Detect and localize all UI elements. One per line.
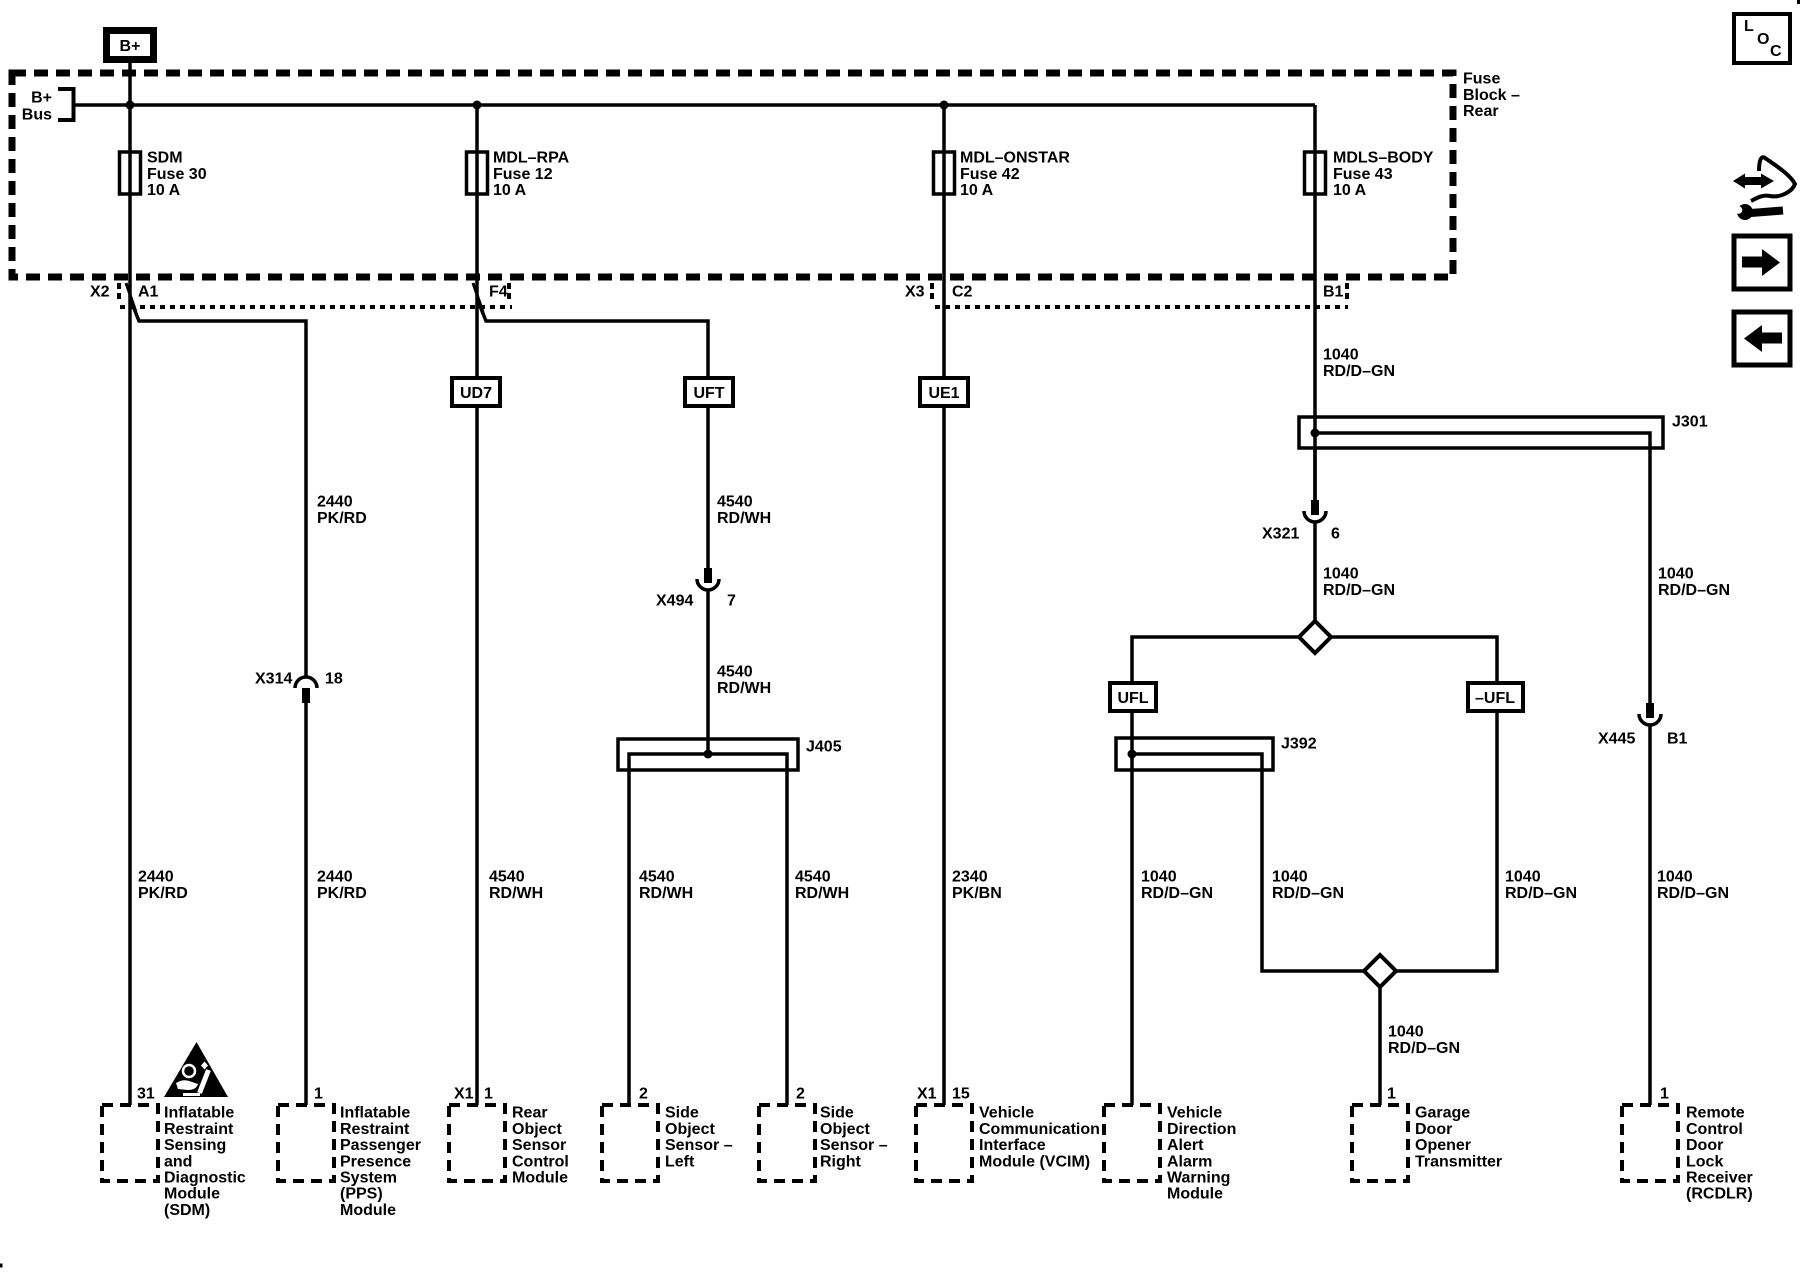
svg-text:15: 15 — [952, 1086, 970, 1103]
svg-text:Bus: Bus — [22, 107, 52, 124]
wire diamond to garage module — [1378, 987, 1382, 1105]
navigation scribble icon — [1733, 157, 1795, 220]
wire J301 to X321 — [1313, 448, 1317, 500]
fuse MDL-RPA Fuse 12 — [467, 152, 488, 194]
svg-text:1: 1 — [484, 1086, 493, 1103]
svg-text:RearObjectSensorControlModule: RearObjectSensorControlModule — [512, 1105, 569, 1187]
svg-text:MDL–RPAFuse 1210 A: MDL–RPAFuse 1210 A — [493, 150, 570, 199]
svg-text:SideObjectSensor –Right: SideObjectSensor –Right — [820, 1105, 888, 1171]
wire -UFL to diamond lower — [1396, 711, 1497, 971]
page corner mark top right — [1797, 0, 1800, 4]
svg-text:X1: X1 — [454, 1086, 474, 1103]
svg-text:GarageDoorOpenerTransmitter: GarageDoorOpenerTransmitter — [1415, 1105, 1502, 1171]
svg-text:UE1: UE1 — [928, 385, 959, 402]
connector row dotted line right — [935, 305, 1348, 309]
module rear object sensor box — [449, 1105, 505, 1181]
wire diamond right to -UFL — [1331, 637, 1497, 683]
svg-text:1040RD/D–GN: 1040RD/D–GN — [1505, 869, 1577, 902]
svg-text:B1: B1 — [1323, 284, 1344, 301]
svg-text:MDL–ONSTARFuse 4210 A: MDL–ONSTARFuse 4210 A — [960, 150, 1070, 199]
svg-text:SDMFuse 3010 A: SDMFuse 3010 A — [147, 150, 207, 199]
svg-text:1040RD/D–GN: 1040RD/D–GN — [1657, 869, 1729, 902]
svg-text:1: 1 — [1387, 1086, 1396, 1103]
svg-text:2440PK/RD: 2440PK/RD — [138, 869, 188, 902]
page corner mark bottom left — [0, 1264, 3, 1268]
svg-text:1: 1 — [314, 1086, 323, 1103]
wire X321 to diamond — [1313, 522, 1317, 621]
wire B+ bus horizontal — [74, 103, 1316, 107]
svg-text:X1: X1 — [917, 1086, 937, 1103]
svg-text:4540RD/WH: 4540RD/WH — [489, 869, 543, 902]
connector box UE1 — [920, 378, 968, 406]
svg-text:J301: J301 — [1672, 414, 1708, 431]
svg-text:31: 31 — [137, 1086, 155, 1103]
connector tick X3 — [930, 283, 934, 303]
svg-text:C: C — [1770, 43, 1782, 60]
inline connector X494 — [697, 568, 719, 590]
navigation arrow right box — [1734, 236, 1790, 289]
svg-text:B1: B1 — [1667, 731, 1688, 748]
wire B+ vertical to SDM — [128, 63, 132, 1105]
splice pack J405 — [618, 739, 798, 1105]
svg-text:RemoteControlDoorLockReceiver(: RemoteControlDoorLockReceiver(RCDLR) — [1686, 1105, 1753, 1203]
node bus/RPA junction — [473, 101, 482, 110]
connector tick B1 — [1345, 283, 1349, 303]
wire MDL-RPA vertical — [475, 105, 479, 1105]
svg-text:UFL: UFL — [1117, 690, 1148, 707]
svg-text:4540RD/WH: 4540RD/WH — [717, 494, 771, 527]
module RCDLR box — [1622, 1105, 1678, 1181]
svg-text:2: 2 — [796, 1086, 805, 1103]
splice diamond upper — [1299, 621, 1331, 653]
connector box UFL — [1110, 683, 1156, 711]
svg-text:O: O — [1757, 31, 1769, 48]
connector box UFT — [685, 378, 733, 406]
svg-text:InflatableRestraintSensingandD: InflatableRestraintSensingandDiagnosticM… — [164, 1105, 246, 1219]
fuse MDL-ONSTAR Fuse 42 — [934, 152, 955, 194]
svg-text:UD7: UD7 — [460, 385, 492, 402]
svg-text:X445: X445 — [1598, 731, 1635, 748]
svg-text:18: 18 — [325, 671, 343, 688]
svg-text:X3: X3 — [905, 284, 925, 301]
wire branch F4 to UFT — [478, 301, 708, 378]
svg-text:L: L — [1744, 18, 1754, 35]
module PPS box — [278, 1105, 334, 1181]
wire J392 to diamond lower — [1262, 970, 1364, 971]
svg-text:J392: J392 — [1281, 736, 1317, 753]
connector row dotted line left — [120, 305, 512, 309]
svg-text:FuseBlock –Rear: FuseBlock –Rear — [1463, 71, 1520, 120]
svg-text:1040RD/D–GN: 1040RD/D–GN — [1658, 566, 1730, 599]
svg-text:F4: F4 — [489, 284, 508, 301]
splice pack J301 — [1299, 417, 1663, 703]
svg-text:2340PK/BN: 2340PK/BN — [952, 869, 1002, 902]
navigation arrow left box — [1734, 312, 1790, 365]
inline connector X445 — [1639, 703, 1661, 725]
connector slash A1 — [126, 283, 136, 312]
LOC legend box — [1734, 14, 1790, 63]
svg-text:–UFL: –UFL — [1475, 690, 1515, 707]
fuse SDM Fuse 30 — [120, 152, 141, 194]
module VCIM box — [916, 1105, 972, 1181]
svg-text:1: 1 — [1660, 1086, 1669, 1103]
svg-text:X314: X314 — [255, 671, 292, 688]
svg-text:4540RD/WH: 4540RD/WH — [639, 869, 693, 902]
svg-text:B+: B+ — [120, 38, 141, 55]
inline connector X314 — [295, 677, 317, 703]
module vehicle direction alert box — [1104, 1105, 1160, 1181]
svg-text:J405: J405 — [806, 739, 842, 756]
svg-text:A1: A1 — [138, 284, 159, 301]
fuse MDLS-BODY Fuse 43 — [1305, 152, 1326, 194]
wire UFL to module — [1130, 711, 1134, 1105]
wire diamond left to UFL — [1132, 637, 1299, 683]
svg-text:7: 7 — [727, 593, 736, 610]
B+ bus bracket — [58, 89, 74, 120]
connector slash F4 — [473, 283, 483, 312]
node bus/SDM junction — [126, 101, 135, 110]
module side object sensor left box — [602, 1105, 658, 1181]
svg-text:UFT: UFT — [693, 385, 724, 402]
fuse block - rear dashed box — [12, 73, 1453, 277]
wire X445 to RCDLR — [1648, 725, 1652, 1105]
module SDM box — [102, 1105, 158, 1181]
SRS caution triangle — [164, 1042, 228, 1097]
svg-text:MDLS–BODYFuse 4310 A: MDLS–BODYFuse 4310 A — [1333, 150, 1434, 199]
svg-text:4540RD/WH: 4540RD/WH — [795, 869, 849, 902]
svg-text:1040RD/D–GN: 1040RD/D–GN — [1388, 1024, 1460, 1057]
splice diamond lower — [1364, 955, 1396, 987]
connector box UD7 — [452, 378, 500, 406]
node bus/ONSTAR junction — [940, 101, 949, 110]
svg-text:1040RD/D–GN: 1040RD/D–GN — [1323, 347, 1395, 380]
connector box -UFL — [1468, 683, 1523, 711]
svg-text:SideObjectSensor –Left: SideObjectSensor –Left — [665, 1105, 733, 1171]
wire MDL-ONSTAR vertical — [942, 105, 946, 1105]
svg-text:1040RD/D–GN: 1040RD/D–GN — [1272, 869, 1344, 902]
svg-text:2440PK/RD: 2440PK/RD — [317, 494, 367, 527]
module garage door opener box — [1352, 1105, 1408, 1181]
svg-text:VehicleCommunicationInterfaceM: VehicleCommunicationInterfaceModule (VCI… — [979, 1105, 1100, 1171]
inline connector X321 — [1304, 500, 1326, 522]
svg-text:X321: X321 — [1262, 526, 1299, 543]
svg-text:2: 2 — [639, 1086, 648, 1103]
wire X314 to PPS module — [304, 703, 308, 1105]
wire X494 to J405 — [706, 590, 710, 754]
wire UFT to X494 — [706, 406, 710, 568]
connector tick F4 — [507, 283, 511, 303]
svg-text:4540RD/WH: 4540RD/WH — [717, 664, 771, 697]
svg-text:X2: X2 — [90, 284, 110, 301]
svg-text:6: 6 — [1331, 526, 1340, 543]
svg-text:VehicleDirectionAlertAlarmWarn: VehicleDirectionAlertAlarmWarningModule — [1167, 1105, 1236, 1203]
svg-text:B+: B+ — [31, 90, 52, 107]
svg-text:X494: X494 — [656, 593, 693, 610]
svg-text:InflatableRestraintPassengerPr: InflatableRestraintPassengerPresenceSyst… — [340, 1105, 421, 1219]
svg-text:1040RD/D–GN: 1040RD/D–GN — [1141, 869, 1213, 902]
wire MDLS-BODY vertical — [1313, 105, 1317, 500]
svg-text:2440PK/RD: 2440PK/RD — [317, 869, 367, 902]
B+ power feed box — [107, 31, 154, 60]
splice pack J392 — [1116, 738, 1273, 970]
wire branch A1 to X314 — [131, 301, 306, 677]
svg-text:C2: C2 — [952, 284, 973, 301]
svg-text:1040RD/D–GN: 1040RD/D–GN — [1323, 566, 1395, 599]
connector tick X2 — [117, 283, 121, 303]
module side object sensor right box — [759, 1105, 815, 1181]
